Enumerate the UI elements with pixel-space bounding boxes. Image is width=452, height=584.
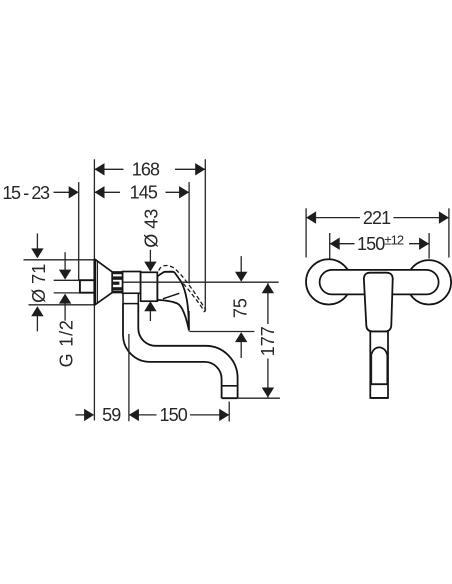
stem dia71 down [36,233,38,249]
svg-text:59: 59 [102,405,121,425]
arrow 145 right [179,186,189,198]
tube inner right [386,354,388,384]
arrow G12 down [59,270,71,280]
stem G12 down [64,252,66,270]
protrusion extent line [78,182,80,280]
stem dia43 down [149,250,151,263]
svg-text:G 1/2: G 1/2 [57,319,77,367]
aerator line front [370,383,388,385]
arrow dia43 down [144,262,156,272]
stem dia43 up [149,310,151,321]
nut rib 2 [112,276,122,279]
nut rib 3 [112,282,119,285]
escutcheon cone [95,259,112,305]
arrow 168 left [95,163,105,175]
dimension graphics [37,169,280,421]
lever handle side view [157,272,188,330]
outlet extent [228,402,230,422]
svg-text:150: 150 [160,405,188,425]
dashed lever tip arc [203,308,205,312]
nut rib 1 [112,272,122,274]
dim line 177 [267,283,269,397]
svg-text:221: 221 [363,208,391,228]
knurled nut [112,272,122,293]
cone wall face thick [93,259,96,305]
axis line [123,281,279,283]
G12 square connector [80,280,95,293]
nut rib 4 [112,287,122,290]
lead line 15-23 [54,191,71,193]
body section 2 cartridge [141,272,158,301]
spout bottom extent [238,397,280,399]
extent line 145 [188,182,190,283]
handle knob front [364,273,393,332]
wall extent line [93,159,95,420]
svg-text:177: 177 [258,326,278,356]
svg-text:Ø 71: Ø 71 [29,264,49,303]
dim line 168 [95,168,206,170]
aerator line [222,385,238,387]
extent 150pm right [428,233,430,259]
spout collar [123,293,138,303]
G12 bottom extent [54,292,80,294]
spout S-tube fill [123,304,238,399]
G12 top extent [54,279,80,281]
tube inner left [371,354,373,384]
dim line 221 [306,217,449,219]
tube dome arc [372,347,387,354]
spout outer edge [123,304,222,399]
dia71 top extent [24,259,95,261]
arrow 221 left [306,211,316,223]
stem G12 up [64,303,66,321]
arrow 150 left [129,409,139,421]
svg-text:75: 75 [231,298,251,318]
extent line 145 lower [188,311,190,332]
handle inner crease [163,293,179,299]
arrow 221 right [439,211,449,223]
spout bottom [222,397,238,399]
arrow 75 up [235,332,247,342]
tube bottom front [370,397,388,399]
arrow G12 up [59,294,71,304]
svg-text:168: 168 [132,160,160,180]
arrow 150pm left [330,238,340,250]
stem dia71 up [36,315,38,332]
dim line 145 [95,191,190,193]
arrow 168 right [195,163,205,175]
stem 75 down [240,256,242,272]
arrow dia71 up [31,306,43,316]
extent 150pm left [329,233,331,259]
body capsule [320,270,439,295]
cone inner line [96,261,98,304]
dashed lever raised lower [183,284,203,309]
extent 221 right [448,208,450,257]
dashed lever raised upper [159,266,205,309]
arrow 150 right [219,409,229,421]
arrow 177 down [262,388,274,398]
dim line 150pm [330,243,429,245]
body section 1 [123,272,141,294]
dia71 bottom extent [29,304,95,306]
spout inner edge [138,304,237,399]
svg-text:15 - 23: 15 - 23 [2,183,50,203]
arrowheads [31,163,274,421]
arrow dia43 up [144,301,156,311]
svg-text:145: 145 [130,183,158,203]
spout center extent [128,334,130,421]
stem 75 up [240,342,242,359]
arrow dia71 down [31,248,43,258]
text backgrounds [96,162,276,422]
dim line 59-150 [75,414,85,416]
spout tube front [370,331,388,398]
nut rib 5 [112,291,122,293]
svg-text:Ø 43: Ø 43 [141,209,161,248]
dim texts [2,160,278,425]
extent line 168 [204,159,206,311]
escutcheon circle left [306,259,351,304]
faucet side view [80,259,238,398]
front view [306,259,451,398]
arrow 145 left [95,186,105,198]
arrow 150pm right [419,238,429,250]
arrow 177 up [262,283,274,293]
escutcheon circle right [407,260,451,304]
arrow 15-23 right [69,186,79,198]
dim line 59 150 main [129,414,229,416]
extent 221 left [305,208,307,257]
arrow 59 right [84,409,94,421]
handle tip level line [190,331,255,333]
front view dims [306,208,449,258]
arrow 75 down [235,272,247,282]
